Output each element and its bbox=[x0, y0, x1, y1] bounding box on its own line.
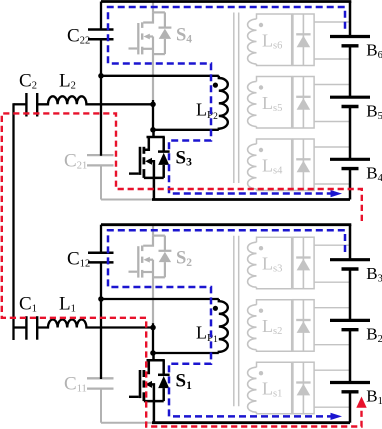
svg-text:C11: C11 bbox=[64, 374, 87, 395]
wire node A to primary top bbox=[101, 298, 219, 300]
primary winding LP1 bbox=[219, 299, 228, 353]
transistor S3 bbox=[129, 130, 170, 200]
wire switch node down bbox=[152, 323, 154, 353]
top rail module 1 bbox=[101, 223, 351, 226]
svg-text:S3: S3 bbox=[176, 147, 193, 168]
wire bbox=[349, 269, 352, 320]
primary winding LP2 bbox=[219, 76, 228, 130]
svg-text:C22: C22 bbox=[67, 25, 90, 46]
capacitor C11 bbox=[87, 378, 114, 422]
secondary winding box Ls3 with diode bbox=[248, 237, 350, 289]
wire battery bottom bbox=[349, 392, 352, 423]
secondary winding box Ls5 with diode bbox=[248, 77, 350, 129]
transistor S4 bbox=[129, 2, 172, 101]
gray return wire module 2 bbox=[101, 199, 152, 201]
capacitor C2 bbox=[14, 93, 38, 117]
polarity dot LP1 bbox=[213, 306, 218, 311]
svg-text:B4: B4 bbox=[366, 164, 382, 184]
svg-text:Ls5: Ls5 bbox=[262, 93, 282, 114]
left rail wire bbox=[12, 103, 14, 340]
polarity dot LP2 bbox=[213, 83, 218, 88]
secondary winding box Ls4 with diode bbox=[248, 139, 350, 191]
svg-text:Ls2: Ls2 bbox=[262, 316, 282, 337]
battery B3 bbox=[330, 260, 370, 269]
svg-text:C2: C2 bbox=[19, 71, 37, 92]
gray return wire module 1 bbox=[101, 422, 152, 424]
blue arrow module 1 bbox=[331, 413, 343, 420]
secondary winding box Ls1 with diode bbox=[248, 362, 350, 414]
battery B1 bbox=[330, 383, 370, 392]
wire bbox=[349, 2, 352, 37]
svg-text:B6: B6 bbox=[366, 41, 382, 61]
svg-text:Ls4: Ls4 bbox=[262, 155, 283, 176]
inductor L2 bbox=[37, 96, 153, 104]
junction primary bottom bbox=[150, 127, 156, 133]
svg-text:S1: S1 bbox=[176, 371, 193, 392]
svg-text:B5: B5 bbox=[366, 101, 382, 121]
svg-text:B1: B1 bbox=[366, 387, 382, 407]
svg-text:Ls3: Ls3 bbox=[262, 254, 282, 275]
battery B5 bbox=[330, 97, 370, 106]
svg-text:L1: L1 bbox=[59, 294, 76, 315]
svg-text:C21: C21 bbox=[64, 151, 87, 172]
battery B4 bbox=[330, 159, 370, 168]
wire C to node A bbox=[100, 262, 102, 379]
capacitor C12 bbox=[88, 225, 114, 263]
wire bbox=[349, 330, 352, 383]
battery B6 bbox=[330, 37, 370, 46]
wire node A to primary top bbox=[101, 75, 219, 77]
svg-text:Ls1: Ls1 bbox=[262, 379, 282, 400]
red arrow at B1 bbox=[356, 397, 366, 408]
transformer core module 2 bbox=[233, 13, 235, 184]
blue arrow module 2 bbox=[331, 190, 343, 197]
blue discharge path module 2 bbox=[108, 7, 345, 194]
wire switch node down bbox=[152, 100, 154, 130]
svg-text:S2: S2 bbox=[176, 249, 192, 269]
bottom rail module 2 bbox=[152, 198, 350, 201]
node X1 junction (switch node) bbox=[150, 325, 156, 331]
capacitor C22 bbox=[88, 2, 114, 40]
capacitor C1 bbox=[14, 316, 38, 340]
transistor S2 bbox=[129, 225, 172, 324]
secondary winding box Ls6 with diode bbox=[248, 14, 350, 66]
bottom rail module 1 bbox=[152, 421, 350, 424]
wire C to node A bbox=[100, 39, 102, 156]
wire primary bottom bbox=[153, 129, 219, 131]
capacitor C21 bbox=[87, 155, 114, 199]
wire bbox=[349, 46, 352, 97]
svg-text:Ls6: Ls6 bbox=[262, 30, 282, 51]
secondary winding box Ls2 with diode bbox=[248, 300, 350, 352]
node X2 junction (switch node) bbox=[150, 102, 156, 108]
svg-text:C12: C12 bbox=[67, 249, 90, 270]
red charge path bbox=[2, 113, 362, 426]
svg-text:C1: C1 bbox=[19, 294, 37, 315]
battery B2 bbox=[330, 320, 370, 329]
wire primary bottom bbox=[153, 352, 219, 354]
transistor S1 bbox=[129, 353, 170, 423]
blue discharge path module 1 bbox=[108, 230, 345, 416]
svg-text:LP2: LP2 bbox=[196, 100, 218, 123]
top rail module 2 bbox=[101, 0, 351, 3]
junction primary bottom bbox=[150, 350, 156, 356]
svg-text:B3: B3 bbox=[366, 264, 382, 284]
svg-text:S4: S4 bbox=[176, 25, 192, 45]
wire bbox=[349, 225, 352, 260]
node A2 junction bbox=[98, 73, 104, 79]
transformer core module 1 bbox=[233, 236, 235, 407]
node A1 junction bbox=[98, 296, 104, 302]
wire battery bottom bbox=[349, 169, 352, 200]
wire bbox=[349, 107, 352, 160]
svg-text:B2: B2 bbox=[366, 325, 382, 345]
inductor L1 bbox=[37, 320, 153, 328]
svg-text:LP1: LP1 bbox=[196, 323, 218, 346]
svg-text:L2: L2 bbox=[59, 71, 76, 92]
